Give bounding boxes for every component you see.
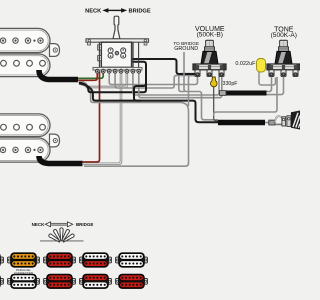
wire: cable to tone lug2 (267, 77, 284, 95)
capacitor 330pF (211, 77, 218, 87)
wire: switch lug6 nested run to volume lug1 (115, 72, 195, 89)
wire: cable to tone lug1 (267, 77, 272, 92)
svg-text:330pF: 330pF (223, 81, 239, 87)
cable: volume to tone (shielded) (226, 91, 267, 96)
neck pickup cable (39, 70, 78, 80)
legend baseline (40, 240, 84, 242)
wire: to-bridge-ground lead (184, 52, 218, 120)
wire: tone lug down-left to ground junction (214, 77, 277, 116)
legend pickup icon at x=23.5 y=260 (orange/orange) (8, 253, 40, 268)
wire: neck red to switch lug2 (78, 72, 97, 81)
wire: neck black to switch area (79, 83, 146, 93)
svg-text:CONNECTED: CONNECTED (14, 271, 34, 275)
switch mounting plate (86, 39, 149, 42)
legend pickup icon at x=131.5 y=281.3 (red/red) (116, 274, 148, 289)
arrow neck-bridge (top) (107, 9, 122, 11)
switch body (101, 42, 131, 67)
bridge pickup cable (39, 156, 83, 164)
wire: switch lug3 to volume lug1 (109, 72, 197, 85)
output cable (218, 120, 265, 125)
wire: black hot switch to volume lug1 (132, 59, 195, 74)
wire: neck green to switch lug1 (78, 72, 103, 79)
tone TONE 500K-A potentiometer (267, 40, 300, 76)
volume VOLUME 500K-B potentiometer (193, 40, 226, 76)
svg-text:NECK: NECK (85, 9, 102, 15)
capacitor 0.022uF (257, 59, 266, 73)
legend pickup icon at x=95.5 y=281.3 (red/white) (80, 274, 112, 289)
wire: ground run up to volume lug1 (189, 76, 196, 107)
neck humbucker pickup (0, 28, 60, 76)
legend pickup icon at x=131.5 y=260 (white/white) (116, 253, 148, 268)
wire: bridge red up to switch (83, 72, 100, 163)
wire: bridge white up to switch lug5 (83, 72, 121, 164)
legend pickup icon at x=-12.5 y=260 (red/red) (0, 253, 3, 268)
svg-text:(500K-A): (500K-A) (271, 32, 297, 39)
wire: switch lug7 to volume lug3 (133, 72, 219, 96)
switch lever (113, 16, 120, 39)
switch side tabs (98, 45, 102, 50)
wire: 0.022uF cap lead loop to tone lug (259, 72, 276, 86)
wire: neck black main run to output cable (79, 83, 218, 122)
svg-text:GROUND: GROUND (174, 46, 198, 52)
svg-text:0.022uF: 0.022uF (235, 61, 256, 67)
svg-text:(500K-B): (500K-B) (197, 31, 223, 38)
legend 5-position lever fan (48, 228, 75, 243)
legend pickup icon at x=23.5 y=281.3 (white/white) (8, 274, 40, 289)
5-way switch U1 (86, 16, 149, 73)
wire: volume lug1 inner corner loop (179, 74, 195, 92)
wire: 330pF lead down to cable (214, 87, 218, 121)
legend pickup icon at x=59.5 y=260 (red/red) (44, 253, 76, 268)
wire: neck white to switch lug6 (79, 72, 127, 88)
legend pickup icon at x=-12.5 y=281.3 (red/red) (0, 274, 3, 289)
legend pickup icon at x=95.5 y=260 (white/red) (80, 253, 112, 268)
wire: switch lug4 long ground run to bridge pickup (79, 84, 189, 166)
switch frame struts (98, 42, 100, 69)
svg-text:NECK: NECK (32, 222, 46, 227)
svg-text:BRIDGE: BRIDGE (129, 9, 151, 15)
svg-text:BRIDGE: BRIDGE (76, 222, 94, 227)
wire: black switch branch to output cable (132, 62, 146, 101)
output jack (269, 111, 300, 130)
legend arrow (51, 223, 68, 225)
switch internal contacts (108, 48, 113, 53)
bridge humbucker pickup (0, 114, 60, 162)
switch lug strip (93, 67, 142, 70)
wire: switch lug8 to volume lug3 (139, 72, 222, 98)
legend pickup icon at x=59.5 y=281.3 (red/red) (44, 274, 76, 289)
